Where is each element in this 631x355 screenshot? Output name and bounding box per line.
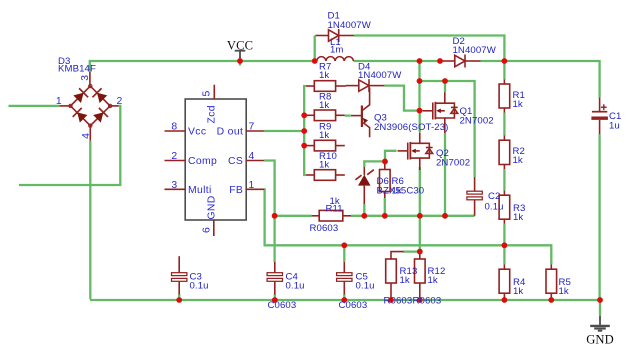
svg-text:VCC: VCC <box>227 39 253 53</box>
wire R8 to Q3 base segment <box>345 114 351 116</box>
resistor R9 <box>305 140 345 151</box>
bridge rectifier D3 KMB14F <box>59 72 118 141</box>
node gnd rail R12 <box>417 297 423 303</box>
svg-text:1k: 1k <box>392 186 402 197</box>
svg-text:2N3906(SOT-23): 2N3906(SOT-23) <box>374 122 448 133</box>
diode D4 1N4007W <box>346 79 384 92</box>
wire node rail61 down to rail81 at x419 <box>418 61 420 81</box>
wire D4 cathode to gate node <box>384 86 419 111</box>
wire rail215 from R11 to C2 bottom <box>351 215 475 217</box>
node rail215 Q2 source <box>417 213 423 219</box>
svg-text:1k: 1k <box>428 275 438 286</box>
svg-text:C0603: C0603 <box>339 300 368 311</box>
svg-text:Vcc: Vcc <box>188 127 206 138</box>
node rail61 R1 top <box>502 58 508 64</box>
svg-text:Zcd: Zcd <box>207 105 218 123</box>
svg-text:3: 3 <box>80 75 91 81</box>
svg-text:1k: 1k <box>513 286 523 297</box>
inductor L1 1m <box>317 57 354 61</box>
op-amp U1 controller IC box <box>165 85 265 236</box>
zener diode D6 BZX55C30 <box>355 167 373 204</box>
resistor R6 <box>380 163 391 199</box>
node VCC junction <box>237 58 243 64</box>
wire bottom ground rail <box>90 299 600 301</box>
resistor R11 <box>312 210 351 221</box>
wire L1 to D2 anode <box>354 60 442 62</box>
svg-text:1k: 1k <box>319 70 329 81</box>
node gnd rail GND <box>597 297 603 303</box>
svg-text:GND: GND <box>207 195 218 219</box>
svg-text:2: 2 <box>117 96 123 107</box>
wire C4 bottom tie <box>274 294 276 300</box>
wire C5 bottom tie <box>343 294 345 300</box>
resistor R2 <box>499 135 510 169</box>
svg-text:5: 5 <box>202 90 213 96</box>
node R9 tap <box>301 143 307 149</box>
node rail61 D2 anode <box>437 58 443 64</box>
capacitor C3 0.1u <box>172 256 187 294</box>
svg-text:R11: R11 <box>326 204 343 215</box>
svg-text:1N4007W: 1N4007W <box>453 45 497 56</box>
mosfet Q2 2N7002 <box>398 132 433 170</box>
svg-text:1u: 1u <box>609 121 620 132</box>
node rail81 x419 <box>417 78 423 84</box>
resistor R10 <box>306 170 345 181</box>
svg-text:1m: 1m <box>330 45 344 56</box>
node gnd rail R5 <box>548 297 554 303</box>
svg-text:Comp: Comp <box>188 156 217 167</box>
wire gate node to zener D6 <box>364 161 385 167</box>
node D out tap <box>301 128 307 134</box>
wire D1 anode riser <box>314 36 316 62</box>
node CS rail corner <box>272 213 278 219</box>
wire R4 top from FB rail <box>503 245 505 264</box>
svg-text:1: 1 <box>56 96 62 107</box>
mosfet Q1 2N7002 <box>423 92 458 133</box>
svg-text:GND: GND <box>586 333 614 347</box>
svg-text:C0603: C0603 <box>268 300 297 311</box>
wire D6 anode to rail215 <box>363 204 365 216</box>
node Q2 gate / D6 / R6 <box>382 159 388 165</box>
svg-text:R0603: R0603 <box>310 223 339 234</box>
svg-text:0.1u: 0.1u <box>286 281 305 292</box>
node rail215 R6 <box>382 213 388 219</box>
capacitor C5 0.1u <box>337 262 352 295</box>
resistor R13 <box>386 252 404 298</box>
diode D2 1N4007W <box>441 55 481 68</box>
node gnd rail C3 <box>176 297 182 303</box>
svg-text:8: 8 <box>171 122 177 133</box>
wire R3 bottom to FB rail <box>503 224 505 246</box>
wire bridge pin 2 down and left stub <box>19 106 120 185</box>
svg-text:1: 1 <box>249 180 255 191</box>
svg-text:1k: 1k <box>513 212 523 223</box>
wire Q1 source down to rail215 <box>444 133 446 216</box>
svg-text:3: 3 <box>171 180 177 191</box>
wire resistor bank vertical x304 <box>304 86 305 175</box>
diode D1 1N4007W <box>316 29 355 42</box>
resistor R12 <box>415 252 426 298</box>
wire R4 bottom tie <box>503 297 505 300</box>
svg-text:0.1u: 0.1u <box>190 281 209 292</box>
wire C5 riser <box>343 245 345 262</box>
wire R12 bottom tie <box>419 297 421 300</box>
wire CS pin to corner down <box>264 161 274 216</box>
node R8 tap <box>301 112 307 118</box>
wire R1 bottom to R2 top <box>503 113 505 136</box>
wire AC input stub to bridge pin 1 <box>9 105 60 107</box>
svg-text:KMB14F: KMB14F <box>58 64 96 75</box>
resistor R7 <box>306 81 346 92</box>
node rail61 x419 <box>417 58 423 64</box>
wire C1 bottom down to ground rail <box>598 134 600 300</box>
svg-text:6: 6 <box>202 227 213 233</box>
node rail215 Q1 source <box>442 213 448 219</box>
svg-text:7: 7 <box>249 122 255 133</box>
svg-text:1N4007W: 1N4007W <box>358 70 402 81</box>
wire D1 cathode top run down to node at R1 top <box>354 36 504 61</box>
resistor R1 <box>499 80 510 113</box>
svg-text:D out: D out <box>217 127 244 138</box>
svg-text:4: 4 <box>81 133 92 139</box>
wire R6 bottom to rail215 <box>384 198 386 216</box>
node rail215 D6 <box>361 213 367 219</box>
transistor Q3 2N3906 <box>351 88 370 138</box>
wire C4 riser from rail215 <box>273 216 275 262</box>
wire R1 top from node61 <box>503 61 505 80</box>
wire D out pin7 to resistor bank <box>264 130 304 132</box>
svg-text:1N4007W: 1N4007W <box>328 20 372 31</box>
wire VCC rail from bridge to L1 <box>89 60 315 62</box>
svg-text:R0603: R0603 <box>413 296 442 307</box>
wire rail215 left part to R11 <box>275 215 312 217</box>
node rail81 Q1 drain <box>442 78 448 84</box>
wire Q2 drain riser <box>419 111 421 132</box>
svg-text:1k: 1k <box>319 130 329 141</box>
wire GND tail <box>599 300 601 316</box>
node gnd rail C4 <box>272 297 278 303</box>
resistor R8 <box>305 110 345 121</box>
svg-text:FB: FB <box>229 185 243 196</box>
node L1/D1 junction <box>312 58 318 64</box>
resistor R3 <box>499 191 510 224</box>
wire bridge pin 3 riser <box>89 61 91 72</box>
VCC power symbol <box>235 51 246 60</box>
wire R13 top tie <box>403 250 420 252</box>
wire rail81 across to C2 riser <box>420 81 475 177</box>
node R12/R13 top <box>417 249 423 255</box>
svg-text:Multi: Multi <box>188 185 212 196</box>
svg-text:1k: 1k <box>400 275 410 286</box>
wire VCC symbol stub <box>239 61 241 66</box>
resistor R5 <box>546 264 557 297</box>
svg-text:1k: 1k <box>513 99 523 110</box>
svg-text:2N7002: 2N7002 <box>436 158 470 169</box>
svg-text:0.1u: 0.1u <box>485 202 504 213</box>
svg-text:C2: C2 <box>488 191 500 202</box>
wire Q2 gate net <box>385 151 397 162</box>
svg-text:1k: 1k <box>513 155 523 166</box>
ground symbol <box>590 316 610 331</box>
svg-text:1k: 1k <box>319 159 329 170</box>
capacitor C1 1u polarized <box>591 98 608 135</box>
node gnd rail R13 <box>388 297 394 303</box>
svg-text:2N7002: 2N7002 <box>460 116 494 127</box>
svg-text:1k: 1k <box>559 286 569 297</box>
wire FB net down right to R5 top <box>264 189 551 264</box>
wire C3 bottom tie <box>178 294 180 300</box>
wire R5 bottom tie <box>550 297 552 300</box>
svg-text:0.1u: 0.1u <box>356 281 375 292</box>
wire gate node x419 down <box>418 81 420 111</box>
capacitor C2 0.1u <box>467 177 482 216</box>
node gnd rail C5 <box>341 297 347 303</box>
wire Q2 source down to rail215 and R12 top <box>419 167 421 252</box>
svg-text:1k: 1k <box>319 100 329 111</box>
wire bridge pin 4 down to bottom rail <box>89 141 91 299</box>
resistor R4 <box>499 264 510 297</box>
node gate Q1 <box>417 108 423 114</box>
svg-text:R0603: R0603 <box>384 296 413 307</box>
node FB rail C5 <box>341 242 347 248</box>
wire D2 cathode to right corner down to C1 <box>481 61 600 98</box>
wire R2 bottom to R3 top <box>503 169 505 191</box>
capacitor C4 0.1u <box>267 262 282 295</box>
svg-text:4: 4 <box>249 151 255 162</box>
wire R13 bottom tie <box>390 297 392 300</box>
svg-text:2: 2 <box>171 151 177 162</box>
node gnd rail R4 <box>502 297 508 303</box>
wire Q1 drain riser <box>444 81 446 92</box>
node FB rail R3/R4 <box>502 242 508 248</box>
svg-text:CS: CS <box>228 156 243 167</box>
